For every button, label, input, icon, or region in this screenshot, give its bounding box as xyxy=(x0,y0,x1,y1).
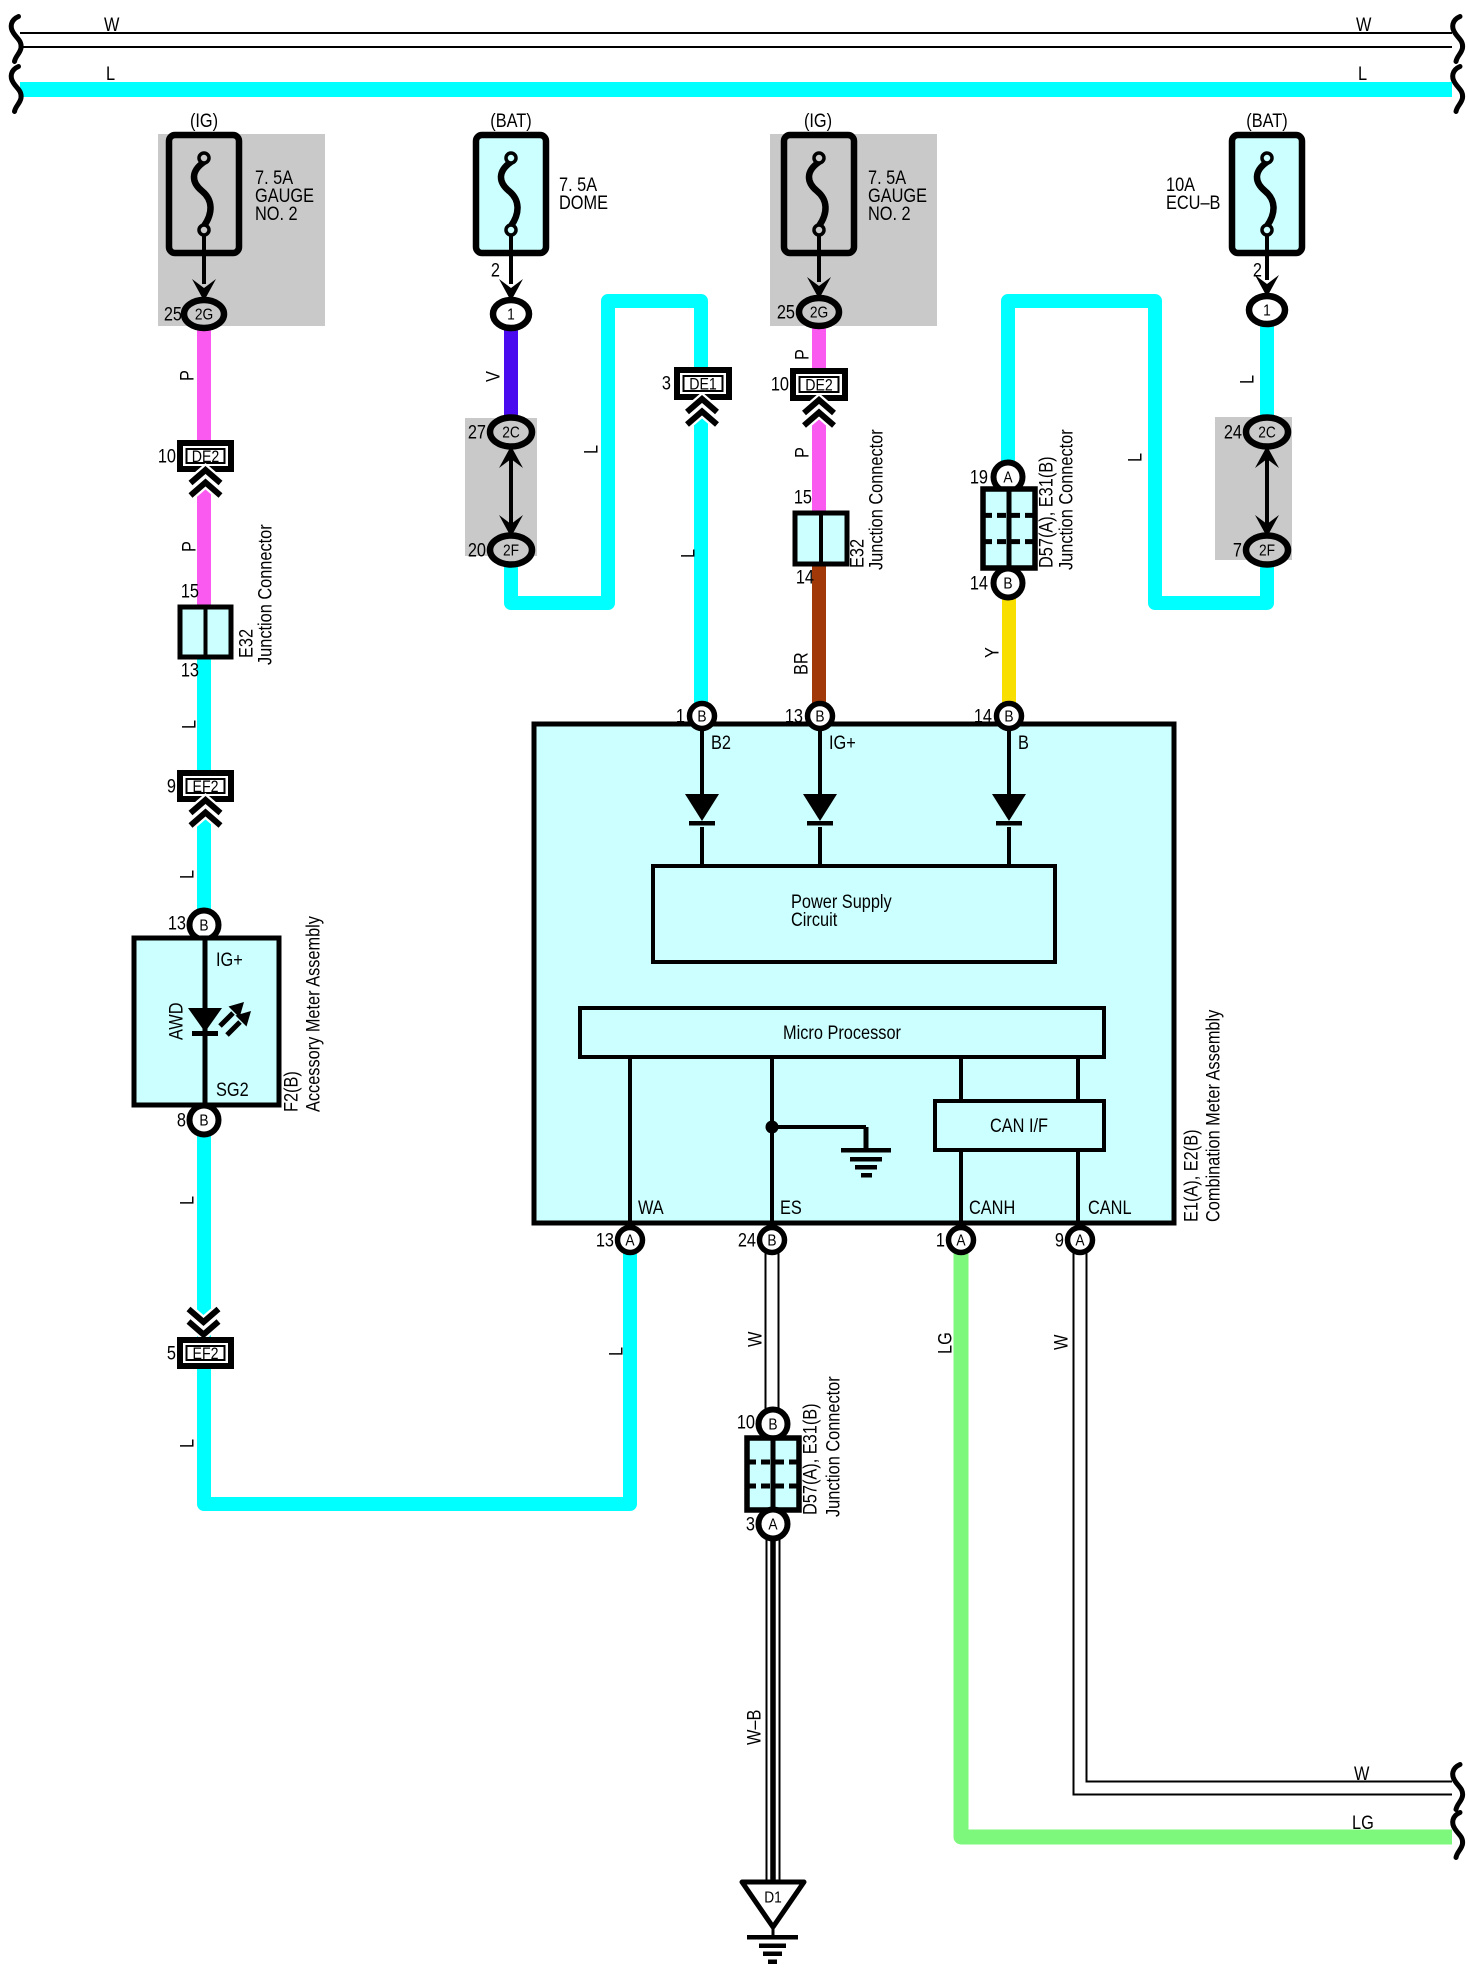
svg-text:1: 1 xyxy=(507,306,515,324)
svg-text:P: P xyxy=(176,370,197,381)
svg-text:W: W xyxy=(1356,14,1372,35)
svg-text:L: L xyxy=(677,549,698,558)
svg-text:24: 24 xyxy=(1224,422,1242,443)
svg-text:D1: D1 xyxy=(764,1889,782,1907)
svg-text:Junction Connector: Junction Connector xyxy=(254,524,275,665)
svg-text:1: 1 xyxy=(676,706,685,727)
svg-text:D57(A), E31(B): D57(A), E31(B) xyxy=(799,1403,820,1515)
svg-text:5: 5 xyxy=(167,1343,176,1364)
svg-text:L: L xyxy=(1236,375,1257,384)
svg-text:10: 10 xyxy=(771,374,789,395)
svg-text:W–B: W–B xyxy=(743,1710,764,1745)
svg-text:E1(A), E2(B): E1(A), E2(B) xyxy=(1180,1129,1201,1222)
svg-text:B: B xyxy=(199,1112,208,1130)
svg-text:B: B xyxy=(1004,708,1013,726)
svg-text:B: B xyxy=(767,1232,776,1250)
svg-text:2F: 2F xyxy=(1259,542,1275,560)
svg-text:CAN I/F: CAN I/F xyxy=(990,1115,1048,1136)
svg-text:LG: LG xyxy=(1352,1812,1374,1833)
svg-text:2G: 2G xyxy=(810,304,828,322)
svg-text:L: L xyxy=(1124,453,1145,462)
svg-text:15: 15 xyxy=(794,487,812,508)
svg-text:(IG): (IG) xyxy=(190,110,218,131)
svg-text:L: L xyxy=(580,445,601,454)
svg-text:13: 13 xyxy=(596,1230,614,1251)
svg-text:24: 24 xyxy=(738,1230,756,1251)
svg-text:L: L xyxy=(605,1347,626,1356)
svg-text:Micro Processor: Micro Processor xyxy=(783,1022,901,1043)
svg-text:13: 13 xyxy=(181,660,199,681)
svg-text:(IG): (IG) xyxy=(804,110,832,131)
svg-text:Y: Y xyxy=(981,647,1002,658)
svg-text:W: W xyxy=(744,1331,765,1347)
svg-text:D57(A), E31(B): D57(A), E31(B) xyxy=(1035,456,1056,568)
svg-text:Junction Connector: Junction Connector xyxy=(865,429,886,570)
svg-text:14: 14 xyxy=(974,706,992,727)
svg-text:9: 9 xyxy=(1055,1230,1064,1251)
svg-text:B: B xyxy=(1003,575,1012,593)
svg-text:15: 15 xyxy=(181,581,199,602)
svg-text:AWD: AWD xyxy=(165,1003,186,1040)
svg-text:2: 2 xyxy=(1253,260,1262,281)
svg-text:2C: 2C xyxy=(502,424,520,442)
svg-text:19: 19 xyxy=(970,467,988,488)
svg-text:14: 14 xyxy=(970,573,988,594)
svg-text:ES: ES xyxy=(780,1197,802,1218)
svg-text:NO. 2: NO. 2 xyxy=(255,203,298,224)
svg-text:A: A xyxy=(625,1232,634,1250)
svg-text:3: 3 xyxy=(662,373,671,394)
svg-text:13: 13 xyxy=(168,913,186,934)
svg-text:DOME: DOME xyxy=(559,192,608,213)
svg-text:14: 14 xyxy=(796,567,814,588)
svg-text:7: 7 xyxy=(1233,540,1242,561)
svg-text:SG2: SG2 xyxy=(216,1079,249,1100)
svg-text:8: 8 xyxy=(177,1110,186,1131)
svg-text:IG+: IG+ xyxy=(829,732,856,753)
svg-text:2G: 2G xyxy=(195,306,213,324)
svg-text:Accessory Meter Assembly: Accessory Meter Assembly xyxy=(302,916,323,1112)
svg-text:Junction Connector: Junction Connector xyxy=(822,1376,843,1517)
svg-text:WA: WA xyxy=(638,1197,664,1218)
svg-text:IG+: IG+ xyxy=(216,949,243,970)
svg-text:2C: 2C xyxy=(1258,424,1276,442)
svg-text:L: L xyxy=(1358,63,1367,84)
svg-text:P: P xyxy=(791,447,812,458)
svg-text:L: L xyxy=(178,720,199,729)
svg-text:B: B xyxy=(815,708,824,726)
svg-text:B: B xyxy=(768,1416,777,1434)
svg-text:P: P xyxy=(791,349,812,360)
svg-text:3: 3 xyxy=(746,1514,755,1535)
svg-text:B: B xyxy=(697,708,706,726)
svg-text:A: A xyxy=(1003,469,1012,487)
svg-text:2: 2 xyxy=(491,260,500,281)
svg-text:LG: LG xyxy=(934,1332,955,1354)
svg-text:A: A xyxy=(1075,1232,1084,1250)
svg-text:L: L xyxy=(176,1439,197,1448)
svg-text:CANL: CANL xyxy=(1088,1197,1132,1218)
svg-text:F2(B): F2(B) xyxy=(280,1071,301,1112)
svg-text:9: 9 xyxy=(167,776,176,797)
svg-text:B2: B2 xyxy=(711,732,731,753)
svg-text:(BAT): (BAT) xyxy=(1246,110,1287,131)
svg-text:NO. 2: NO. 2 xyxy=(868,203,911,224)
svg-text:(BAT): (BAT) xyxy=(490,110,531,131)
svg-text:EF2: EF2 xyxy=(192,1345,218,1363)
svg-text:W: W xyxy=(1354,1763,1370,1784)
svg-text:1: 1 xyxy=(936,1230,945,1251)
svg-text:W: W xyxy=(1050,1334,1071,1350)
svg-text:DE1: DE1 xyxy=(689,375,717,393)
svg-text:B: B xyxy=(1018,732,1029,753)
svg-text:L: L xyxy=(106,63,115,84)
svg-text:Combination Meter Assembly: Combination Meter Assembly xyxy=(1202,1010,1223,1222)
svg-text:25: 25 xyxy=(777,302,795,323)
svg-text:L: L xyxy=(176,870,197,879)
svg-text:2F: 2F xyxy=(503,542,519,560)
svg-text:10: 10 xyxy=(737,1412,755,1433)
svg-text:DE2: DE2 xyxy=(805,376,833,394)
svg-text:V: V xyxy=(482,371,503,382)
svg-text:A: A xyxy=(768,1516,777,1534)
svg-text:ECU–B: ECU–B xyxy=(1166,192,1220,213)
svg-text:A: A xyxy=(956,1232,965,1250)
svg-text:Junction Connector: Junction Connector xyxy=(1055,429,1076,570)
svg-text:25: 25 xyxy=(164,304,182,325)
svg-text:27: 27 xyxy=(468,422,486,443)
svg-text:BR: BR xyxy=(790,652,811,675)
svg-text:P: P xyxy=(178,541,199,552)
svg-text:B: B xyxy=(199,917,208,935)
svg-text:13: 13 xyxy=(785,706,803,727)
svg-text:10: 10 xyxy=(158,446,176,467)
svg-text:1: 1 xyxy=(1263,302,1271,320)
svg-text:CANH: CANH xyxy=(969,1197,1015,1218)
svg-text:Circuit: Circuit xyxy=(791,909,837,930)
svg-text:20: 20 xyxy=(468,540,486,561)
svg-text:L: L xyxy=(176,1196,197,1205)
svg-text:W: W xyxy=(104,14,120,35)
